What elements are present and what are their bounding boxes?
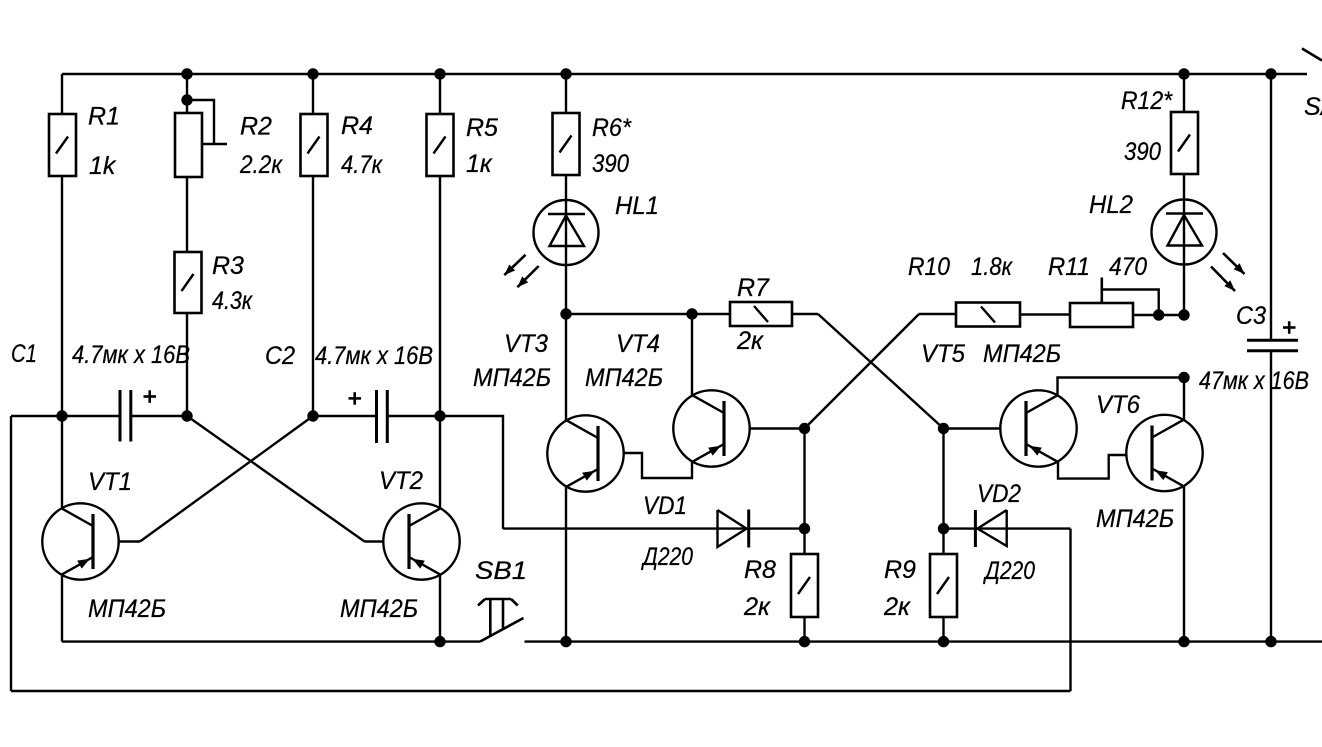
resistor R11 (trimmer) (1070, 303, 1133, 327)
node top rail / C3 (1265, 68, 1276, 79)
node HL1 / VT3 collector (560, 308, 571, 319)
wire VT1 emitter lead (61, 574, 63, 642)
svg-text:МП42Б: МП42Б (340, 595, 418, 623)
wire feedback bottom run (11, 690, 1071, 692)
resistor R8 (791, 554, 818, 617)
svg-text:VT2: VT2 (379, 467, 423, 495)
wire VT2 collector lead (439, 416, 441, 509)
svg-text:R12*: R12* (1121, 87, 1173, 115)
wire cross diagonal VT1base-C2 (140, 416, 313, 542)
wire R2-R3 link (186, 177, 188, 252)
svg-text:МП42Б: МП42Б (473, 364, 551, 392)
wire VT5base-VD2-R9 vertical (942, 429, 944, 555)
wire VT1 collector lead (61, 416, 63, 509)
node bottom rail / VT3 emitter (560, 636, 571, 647)
svg-text:2к: 2к (743, 593, 771, 621)
wire R6 top lead (565, 74, 567, 113)
wire VT4 collector lead (691, 314, 693, 396)
svg-text:R1: R1 (88, 103, 120, 131)
diode VD2 (978, 510, 1007, 546)
wire VT4 base lead (724, 427, 805, 429)
wire C1 right lead (131, 415, 187, 417)
node top rail / R4 (307, 68, 318, 79)
wire R12-HL2-node lead (1183, 174, 1185, 315)
wire R3 bottom lead (186, 313, 188, 416)
svg-text:R8: R8 (744, 556, 776, 584)
wire VD1 anode wire (503, 527, 805, 529)
transistor VT5 (1000, 390, 1076, 466)
svg-text:4.3к: 4.3к (212, 287, 253, 315)
resistor R7 (730, 302, 792, 326)
svg-text:390: 390 (592, 150, 629, 178)
node C2 left / R4 (307, 410, 318, 421)
resistor R10 (956, 303, 1020, 327)
svg-text:1.8к: 1.8к (971, 253, 1013, 281)
wire R10 left lead (919, 313, 956, 315)
svg-text:2к: 2к (883, 593, 911, 621)
wire VT6 emitter lead (1183, 485, 1185, 642)
wire VT3 collector lead (565, 314, 567, 421)
wire bottom rail right (525, 640, 1322, 642)
svg-text:VD1: VD1 (643, 492, 687, 520)
svg-text:470: 470 (1109, 253, 1147, 281)
svg-text:МП42Б: МП42Б (1096, 505, 1174, 533)
capacitor C1 (119, 390, 122, 442)
LED HL2 (1152, 200, 1217, 265)
svg-text:SA: SA (1304, 93, 1322, 121)
svg-text:Д220: Д220 (640, 543, 693, 571)
resistor R12 (1171, 112, 1198, 174)
diode VD1 (718, 510, 747, 547)
node C1 right / R3 (181, 410, 192, 421)
wire cross diagonal VT2base-C1 (187, 416, 365, 542)
node bottom rail / VT2 emitter (434, 636, 445, 647)
node R11 wiper out (1153, 309, 1164, 320)
wire R5 bottom lead (439, 176, 441, 416)
wire VT4base-VD1-R8 vertical (803, 429, 805, 555)
svg-text:HL2: HL2 (1089, 191, 1133, 219)
wire top power rail (62, 73, 1307, 75)
transistor VT4 (673, 390, 749, 466)
wire R6-HL1-node lead (565, 175, 567, 314)
wire HL1node-R7 link (566, 313, 730, 315)
transistor VT2 (383, 503, 459, 579)
wire VT2 emitter lead (439, 574, 441, 642)
switch SA1 blade (1302, 49, 1322, 61)
svg-text:МП42Б: МП42Б (88, 595, 166, 623)
capacitor C2 (375, 390, 378, 443)
svg-text:R5: R5 (466, 114, 498, 142)
svg-text:C3: C3 (1236, 302, 1266, 330)
LED HL2 light arrows (1223, 253, 1245, 274)
wire R1 bottom lead (61, 176, 63, 416)
wire VD2 anode wire (944, 527, 1071, 529)
node C1 left / VT1 collector (56, 410, 67, 421)
svg-text:Д220: Д220 (982, 557, 1035, 585)
wire R11 wiper tap (1101, 278, 1104, 304)
node R2 tap junction (181, 94, 192, 105)
wire C1 left extension (11, 415, 62, 417)
resistor R4 (301, 114, 328, 176)
node VT4 base (799, 423, 810, 434)
node bottom rail / C3 (1265, 636, 1276, 647)
LED HL1 light arrows (504, 255, 525, 275)
push button SB1 (485, 598, 511, 601)
wire C1 left lead (62, 415, 120, 417)
svg-text:VT3: VT3 (504, 330, 548, 358)
svg-text:47мк x 16В: 47мк x 16В (1199, 367, 1309, 395)
wire R8 bottom lead (803, 617, 805, 642)
node VD1 cathode / R8 (799, 523, 810, 534)
svg-text:C2: C2 (265, 342, 295, 370)
svg-text:VT6: VT6 (1096, 391, 1140, 419)
svg-text:C1: C1 (11, 340, 37, 368)
resistor R1 (49, 114, 76, 176)
wire R11 right lead (1133, 314, 1184, 316)
node C2 right / R5 (434, 410, 445, 421)
svg-text:390: 390 (1124, 138, 1161, 166)
wire cross diagonal R7-VT5base (818, 314, 944, 429)
svg-text:VT1: VT1 (88, 468, 132, 496)
svg-text:МП42Б: МП42Б (983, 340, 1061, 368)
node top rail / R5 (434, 68, 445, 79)
node top rail / R6 (560, 68, 571, 79)
node VT5 base (938, 423, 949, 434)
wire bottom rail left (62, 640, 480, 642)
wire R9 bottom lead (942, 617, 944, 642)
transistor VT6 (1126, 415, 1202, 491)
node R11 / HL2 branch (1178, 309, 1189, 320)
wire VT5emitter-VT6base staircase (1058, 455, 1153, 479)
resistor R9 (930, 554, 957, 617)
LED HL1 (534, 200, 599, 265)
node top rail / R2 (181, 68, 192, 79)
wire C3 bottom lead (1270, 351, 1272, 642)
node bottom rail / VT6 emitter (1178, 636, 1189, 647)
svg-text:R7: R7 (737, 274, 770, 302)
svg-text:R2: R2 (240, 113, 272, 141)
node bottom rail / R9 (938, 636, 949, 647)
resistor R6 (553, 113, 580, 175)
wire R10-R11 link (1020, 313, 1070, 315)
svg-text:HL1: HL1 (615, 192, 659, 220)
node top rail / R12 (1178, 68, 1189, 79)
wire R7 right lead (792, 313, 818, 315)
node R7 left / VT4 collector (686, 308, 697, 319)
svg-text:2к: 2к (736, 327, 764, 355)
svg-text:4.7мк x 16В: 4.7мк x 16В (315, 342, 433, 370)
wire R12 top lead (1183, 74, 1185, 112)
wire R5 top lead (439, 74, 441, 114)
svg-text:R9: R9 (884, 556, 916, 584)
wire R2 top lead (186, 74, 188, 114)
svg-text:4.7к: 4.7к (341, 151, 383, 179)
wire VT5 base lead (944, 427, 1027, 429)
wire C3 top lead (1270, 74, 1272, 340)
wire VT6 collector lead (1183, 378, 1185, 422)
svg-text:R6*: R6* (592, 114, 632, 142)
wire VT3base-VT4emitter staircase (599, 453, 693, 478)
capacitor C3 (1247, 339, 1298, 342)
transistor VT1 (42, 503, 118, 579)
svg-text:2.2к: 2.2к (239, 151, 283, 179)
node VT5 collector / VT6 (1178, 372, 1189, 383)
svg-text:R11: R11 (1048, 253, 1090, 281)
svg-text:VT5: VT5 (921, 340, 965, 368)
wire VT5 collector stub (1058, 378, 1185, 397)
transistor VT3 (547, 415, 623, 491)
resistor R5 (427, 114, 454, 176)
wire cross diagonal VT4base-R10 (805, 314, 920, 429)
svg-text:4.7мк x 16В: 4.7мк x 16В (72, 341, 190, 369)
wire feedback left vertical (10, 416, 12, 691)
wire VT3 emitter lead (565, 486, 567, 642)
svg-text:VD2: VD2 (977, 480, 1021, 508)
svg-text:R10: R10 (908, 253, 950, 281)
wire VT1 base lead (94, 540, 140, 542)
svg-text:VT4: VT4 (616, 330, 660, 358)
svg-text:SB1: SB1 (475, 557, 527, 585)
wire feedback right vertical (1069, 529, 1071, 691)
wire C2 left lead (313, 415, 377, 417)
svg-text:R4: R4 (341, 112, 373, 140)
node VD2 cathode / R9 (938, 523, 949, 534)
node bottom rail / R8 (799, 636, 810, 647)
resistor R2 (trimmer) (175, 113, 202, 177)
svg-text:1k: 1k (89, 152, 117, 180)
wire R4 top lead (312, 74, 314, 114)
resistor R3 (175, 252, 202, 313)
wire C2 right lead (387, 415, 440, 417)
wire VT2 base lead (365, 540, 410, 542)
wire R4 bottom lead (312, 176, 314, 416)
wire C2right-VD1 link (440, 416, 503, 529)
wire R1 top lead (61, 74, 63, 114)
svg-text:1к: 1к (466, 150, 493, 178)
wire R2 wiper tap (187, 100, 214, 144)
svg-text:R3: R3 (212, 252, 244, 280)
svg-text:МП42Б: МП42Б (585, 364, 663, 392)
